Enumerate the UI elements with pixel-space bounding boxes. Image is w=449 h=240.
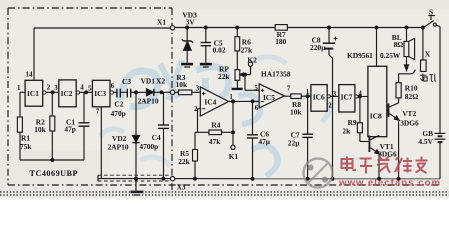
ground symbol below C5: [200, 63, 212, 66]
ground symbol below RP: [232, 88, 243, 90]
svg-text:IC7: IC7: [341, 93, 353, 102]
wire IC8 top feed: [375, 26, 378, 29]
wire IC5 output: [284, 95, 290, 97]
svg-text:47k: 47k: [209, 137, 221, 146]
svg-text:4.5V: 4.5V: [418, 137, 433, 146]
wire IC7 out to IC8: [358, 96, 368, 98]
inverter IC3: [92, 80, 110, 107]
junction node VD2 branch: [135, 91, 138, 94]
svg-text:R4: R4: [211, 121, 220, 130]
wire IC4 inverting input: [198, 108, 201, 110]
resistor R2: [50, 116, 55, 131]
wire pin 14 drop: [33, 28, 35, 80]
wire ground rail: [98, 178, 440, 180]
svg-text:HA17358: HA17358: [261, 69, 291, 78]
svg-text:IC4: IC4: [204, 97, 216, 106]
IC KD9561 (IC8): [368, 66, 387, 136]
svg-text:S: S: [429, 7, 433, 16]
speaker BL: [405, 26, 408, 29]
wire output to feedback: [232, 101, 234, 132]
ground symbol below VD2: [131, 191, 144, 194]
svg-text:4: 4: [80, 84, 84, 92]
resistor R5: [195, 131, 198, 133]
svg-text:5: 5: [88, 84, 92, 92]
diode VD2 with ground: [135, 92, 137, 135]
svg-text:2AP10: 2AP10: [108, 142, 129, 151]
dashed cable pair at bottom of module: [98, 175, 170, 181]
wire input to IC1 with R1 drop: [20, 91, 25, 93]
svg-text:22µ: 22µ: [288, 139, 300, 148]
svg-text:4: 4: [358, 89, 362, 97]
wire IC4 output: [229, 100, 260, 102]
junction node at IC1 output: [51, 91, 54, 94]
svg-text:22k: 22k: [218, 72, 230, 81]
red watermark logo circle: [304, 159, 333, 188]
speaker plug arrow: [406, 57, 408, 66]
svg-text:1: 1: [306, 88, 310, 96]
svg-text:3DG6: 3DG6: [400, 118, 419, 127]
svg-text:X2: X2: [156, 76, 165, 85]
wire IC3 out to C2: [113, 91, 117, 93]
svg-text:180: 180: [275, 37, 286, 46]
capacitor C5: [204, 26, 207, 29]
svg-text:3: 3: [54, 84, 58, 92]
svg-text:3V: 3V: [186, 18, 196, 27]
svg-text:3: 3: [333, 90, 337, 98]
svg-text:10k: 10k: [290, 107, 302, 116]
svg-text:C3: C3: [122, 77, 131, 86]
svg-text:1: 1: [229, 93, 233, 101]
junction node C4 branch: [160, 91, 163, 94]
svg-text:X3: X3: [177, 183, 186, 192]
svg-text:47µ: 47µ: [258, 137, 270, 146]
svg-text:75k: 75k: [20, 142, 32, 151]
svg-text:8Ω: 8Ω: [394, 40, 404, 49]
svg-text:10k: 10k: [176, 80, 188, 89]
svg-text:6: 6: [255, 104, 259, 112]
zener diode VD3: [186, 26, 189, 29]
svg-text:6: 6: [111, 82, 115, 90]
svg-text:TC4069UBP: TC4069UBP: [30, 169, 78, 178]
resistor R9: [359, 97, 361, 123]
wire C3 to VD1: [131, 91, 147, 93]
svg-text:X: X: [425, 49, 431, 58]
wire VDD line to pin 14: [34, 27, 170, 29]
svg-text:IC8: IC8: [370, 112, 382, 121]
svg-text:VD1: VD1: [141, 76, 156, 85]
node K1: [232, 132, 234, 145]
capacitor C3: [126, 89, 128, 98]
wire top supply rail: [175, 27, 424, 29]
svg-text:2: 2: [328, 101, 332, 109]
op-amp IC5: [259, 84, 284, 108]
svg-text:0.02: 0.02: [213, 45, 226, 54]
svg-text:IC3: IC3: [94, 89, 106, 98]
resistor R6: [236, 26, 239, 29]
capacitor C7: [307, 96, 309, 134]
svg-text:14: 14: [26, 71, 34, 79]
svg-text:X1: X1: [157, 18, 166, 27]
capacitor C4: [163, 92, 165, 125]
blue watermark blobs: [100, 57, 329, 176]
inverter IC1: [25, 80, 43, 106]
svg-text:1: 1: [17, 84, 21, 92]
transistor VT1: [368, 136, 370, 153]
svg-text:K1: K1: [229, 152, 239, 161]
wire IC6 out to IC7: [330, 95, 339, 97]
junction node at IC2 output: [85, 91, 88, 94]
svg-text:IC6: IC6: [313, 93, 325, 102]
capacitor C1: [79, 122, 90, 124]
wire C2 to C3: [120, 91, 127, 93]
svg-text:7: 7: [96, 107, 100, 115]
wire feedback line: [198, 131, 209, 133]
RP wiper arrow: [242, 74, 246, 76]
junction dots on ground rail: [135, 177, 138, 180]
svg-text:5: 5: [254, 84, 258, 92]
inverter IC2: [59, 80, 76, 107]
diode VD1: [147, 89, 154, 96]
svg-text:2AP10: 2AP10: [138, 97, 159, 106]
svg-text:220µ: 220µ: [310, 43, 326, 52]
resistor R8: [291, 94, 301, 99]
potentiometer RP: [235, 70, 240, 81]
svg-text:www.elecfans.com: www.elecfans.com: [338, 178, 440, 189]
switch S: [422, 26, 425, 29]
wire pin 7 ground drop: [100, 107, 102, 179]
svg-text:22k: 22k: [178, 157, 190, 166]
svg-text:47p: 47p: [64, 125, 76, 134]
svg-text:C4: C4: [152, 133, 161, 142]
battery GB: [439, 27, 441, 133]
resistor R7 (series in rail): [275, 25, 287, 31]
capacitor C2: [116, 89, 118, 98]
svg-text:3: 3: [196, 84, 200, 92]
resistor R4: [209, 130, 222, 135]
node X3: [170, 177, 174, 181]
svg-text:0.25W: 0.25W: [380, 51, 401, 60]
svg-text:IC1: IC1: [27, 89, 39, 98]
svg-text:K2: K2: [247, 56, 257, 65]
red watermark text 电子发烧友: [342, 156, 428, 174]
wire bottom rail of oscillator: [20, 159, 84, 161]
wire R2 drop: [51, 92, 53, 116]
wire C1 drop: [83, 92, 85, 122]
resistor R1: [17, 117, 22, 132]
wire wiper to IC5 pin5: [244, 75, 246, 91]
svg-text:2: 2: [194, 105, 198, 113]
svg-text:470p: 470p: [111, 109, 126, 118]
op-amp IC4: [200, 87, 228, 116]
wire VD1 to X2: [154, 91, 171, 93]
node X1: [170, 26, 174, 30]
wire IC2 out to IC3 in: [80, 91, 93, 93]
ground symbol below VD3: [181, 63, 193, 66]
svg-text:IC5: IC5: [263, 93, 275, 102]
jack spring contact: [399, 73, 410, 75]
svg-text:2k: 2k: [342, 127, 351, 136]
inverter IC7: [339, 85, 355, 112]
inverter IC6: [311, 85, 327, 112]
label jack chinese chars: [420, 74, 436, 82]
jack X: [422, 28, 424, 61]
svg-text:2: 2: [47, 84, 51, 92]
capacitor C8 electrolytic: [328, 26, 331, 29]
svg-text:IC2: IC2: [61, 89, 73, 98]
svg-text:VT2: VT2: [402, 109, 416, 118]
node K2: [245, 74, 251, 76]
wire IC1 out to IC2 in: [46, 91, 59, 93]
svg-text:KD9561: KD9561: [347, 51, 373, 60]
resistor R10: [396, 83, 401, 98]
svg-text:10k: 10k: [34, 125, 46, 134]
transistor VT2: [387, 109, 389, 111]
dash-dot border of oscillator module (left box): [8, 8, 441, 190]
svg-text:82Ω: 82Ω: [405, 92, 418, 101]
svg-text:27k: 27k: [241, 45, 253, 54]
svg-text:C2: C2: [114, 100, 123, 109]
svg-text:4700p: 4700p: [139, 142, 158, 151]
capacitor C6: [251, 100, 254, 103]
node X2: [170, 90, 174, 94]
svg-text:7: 7: [287, 84, 291, 92]
resistor R3: [175, 91, 179, 93]
bottom dotted page border: [0, 192, 449, 195]
